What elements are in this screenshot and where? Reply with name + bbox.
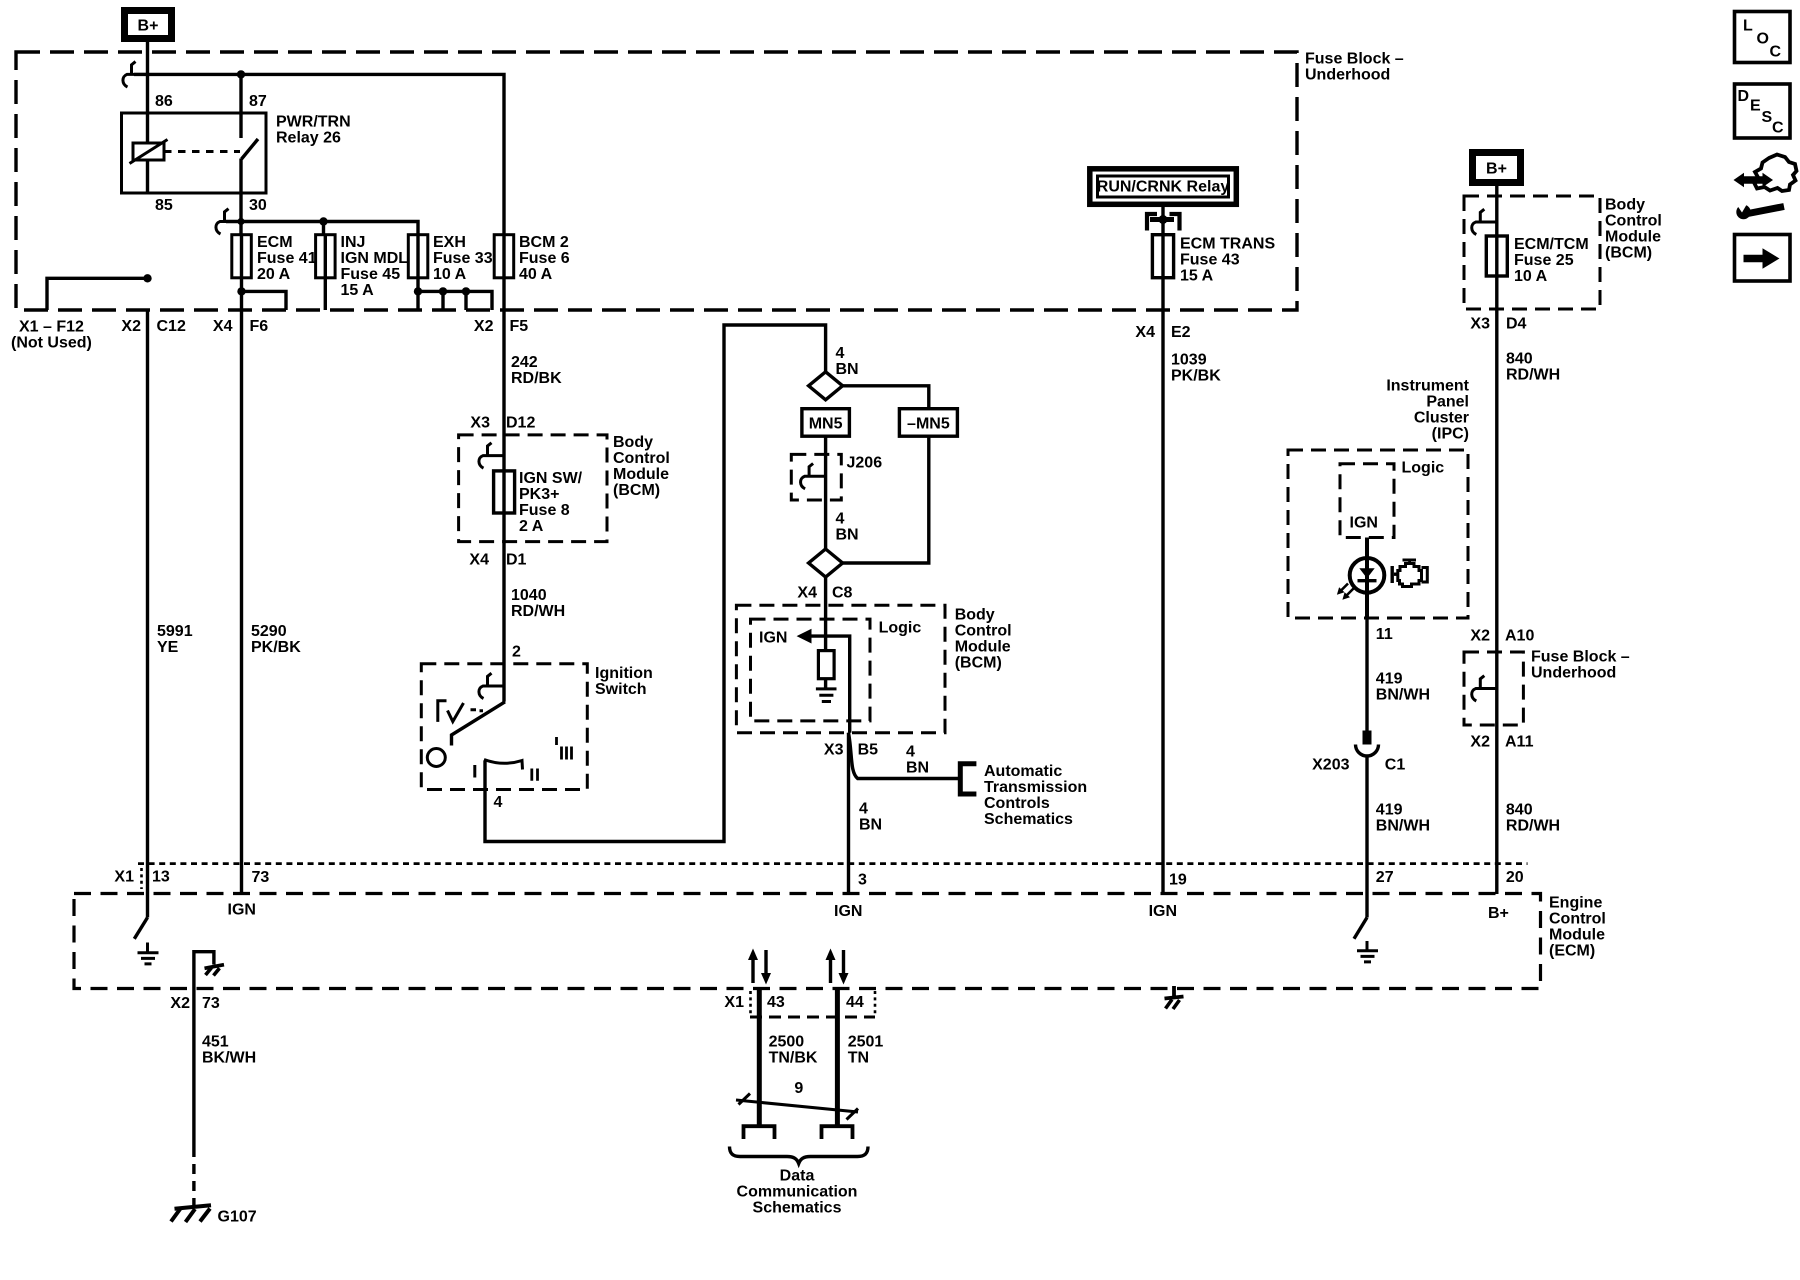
pin label X2 A11 <box>1470 734 1533 751</box>
svg-text:Controls: Controls <box>984 795 1050 812</box>
pin label X2 C12 <box>121 318 186 335</box>
svg-text:L: L <box>1743 18 1753 35</box>
BCM logic outer box <box>736 605 945 732</box>
BCM ign-sw-fuse box <box>459 435 607 542</box>
svg-text:Control: Control <box>955 623 1012 640</box>
svg-text:(Not Used): (Not Used) <box>11 335 92 352</box>
svg-text:RD/BK: RD/BK <box>511 370 562 387</box>
svg-text:40 A: 40 A <box>519 266 553 283</box>
wire relay pin 87 drop <box>239 74 242 138</box>
svg-text:4: 4 <box>906 744 915 761</box>
relay name label <box>276 114 351 147</box>
svg-text:4: 4 <box>494 794 503 811</box>
pin label X3 B5 <box>824 742 878 759</box>
svg-text:840: 840 <box>1506 802 1533 819</box>
svg-text:D1: D1 <box>506 552 527 569</box>
svg-text:Schematics: Schematics <box>753 1200 842 1217</box>
svg-text:(BCM): (BCM) <box>613 482 660 499</box>
label 4 BN (branch) <box>906 744 929 777</box>
svg-text:Fuse 45: Fuse 45 <box>341 266 401 283</box>
icon connector view (arrow blob wrench) <box>1734 155 1797 220</box>
inline connector X203 C1 <box>1356 731 1379 757</box>
svg-text:5290: 5290 <box>251 623 287 640</box>
svg-text:Fuse 25: Fuse 25 <box>1514 252 1574 269</box>
svg-text:B+: B+ <box>138 18 159 35</box>
svg-text:X4: X4 <box>1135 324 1155 341</box>
svg-text:IGN: IGN <box>834 903 862 920</box>
wire fuse45 output <box>324 278 327 310</box>
dashed lead to G107 <box>192 1147 195 1205</box>
svg-text:87: 87 <box>249 93 267 110</box>
svg-text:86: 86 <box>155 93 173 110</box>
node -MN5 <box>899 409 957 437</box>
power symbol B+ (top left) <box>125 11 172 39</box>
svg-text:Switch: Switch <box>595 681 647 698</box>
serial data arrows pin 44 <box>826 949 849 985</box>
svg-text:X2: X2 <box>1470 628 1490 645</box>
splice diamond S2 <box>809 549 843 577</box>
pin label X2 A10 <box>1470 628 1534 645</box>
svg-text:Fuse Block –: Fuse Block – <box>1305 51 1404 68</box>
switch blade at ECM pin 13 <box>134 918 147 939</box>
ignition switch box <box>421 664 587 790</box>
node MN5 <box>802 409 850 437</box>
svg-text:G107: G107 <box>218 1209 257 1226</box>
junction fuse41 stub <box>237 287 245 295</box>
pin label X4 D1 <box>469 552 526 569</box>
svg-text:Module: Module <box>1605 229 1661 246</box>
svg-text:PK/BK: PK/BK <box>1171 368 1221 385</box>
svg-text:Logic: Logic <box>879 620 922 637</box>
svg-text:27: 27 <box>1376 869 1394 886</box>
label 4 BN (mid) <box>836 511 859 544</box>
label 242 RD/BK <box>511 354 562 387</box>
svg-text:10 A: 10 A <box>1514 268 1548 285</box>
svg-text:Relay 26: Relay 26 <box>276 130 341 147</box>
pin label X2 73 <box>170 995 219 1012</box>
wire 5290 PK/BK (fuse41 to ECM 73) <box>240 310 243 892</box>
label Body Control Module (BCM) right <box>1605 197 1662 262</box>
svg-text:C8: C8 <box>832 585 853 602</box>
svg-text:Control: Control <box>1549 911 1606 928</box>
BCM logic inner box <box>751 619 871 721</box>
svg-text:20: 20 <box>1506 869 1524 886</box>
position mark II <box>532 769 538 781</box>
svg-text:D12: D12 <box>506 415 535 432</box>
wire relay to fuse 43 <box>1161 207 1164 235</box>
svg-text:C: C <box>1772 120 1784 137</box>
ignition switch label <box>595 665 653 698</box>
wire 2500 TN/BK <box>757 989 762 1127</box>
svg-text:MN5: MN5 <box>809 416 843 433</box>
svg-text:Module: Module <box>613 466 669 483</box>
pin label X4 E2 <box>1135 324 1190 341</box>
label 5991 YE <box>157 623 193 656</box>
svg-text:X2: X2 <box>474 318 494 335</box>
fuse F43 ECM TRANS Fuse 43 15 A <box>1152 235 1275 285</box>
svg-text:(BCM): (BCM) <box>1605 245 1652 262</box>
svg-text:–MN5: –MN5 <box>907 416 950 433</box>
wire fuse 45 feed <box>322 222 325 235</box>
junction at relay 87 feed <box>237 70 245 78</box>
svg-text:5991: 5991 <box>157 623 193 640</box>
svg-text:RD/WH: RD/WH <box>1506 818 1560 835</box>
svg-text:451: 451 <box>202 1034 229 1051</box>
junction at pin30 tee <box>237 218 244 225</box>
svg-text:B+: B+ <box>1486 161 1507 178</box>
wire 2501 TN <box>835 989 840 1127</box>
svg-text:Body: Body <box>955 607 995 624</box>
svg-text:X3: X3 <box>824 742 844 759</box>
label 5290 PK/BK <box>251 623 301 656</box>
svg-text:73: 73 <box>252 869 270 886</box>
ground at ECM pin 13 <box>138 943 159 964</box>
svg-text:IGN MDL: IGN MDL <box>341 250 409 267</box>
fuse F45 INJ IGN MDL Fuse 45 15 A <box>316 234 409 299</box>
wire bus to relay 87 and BCM2 fuse <box>134 74 504 234</box>
svg-text:15 A: 15 A <box>1180 268 1214 285</box>
svg-text:TN/BK: TN/BK <box>769 1050 818 1067</box>
ECM connector dotted line <box>138 862 1528 865</box>
wire 242 RD/BK fuse6 to BCM <box>502 278 505 471</box>
wire 840 RD/WH upper <box>1495 276 1498 652</box>
relay contact blade <box>242 139 259 159</box>
svg-text:ECM: ECM <box>257 234 293 251</box>
connector hook in right BCM <box>1472 209 1497 234</box>
wire MN5 down through J206 <box>824 436 827 549</box>
icon forward arrow box <box>1735 235 1791 282</box>
wire B+ right down <box>1495 182 1498 236</box>
svg-text:11: 11 <box>1376 626 1393 643</box>
svg-text:A10: A10 <box>1505 628 1534 645</box>
pin label X3 D4 <box>1470 316 1526 333</box>
ignition switch wiper <box>452 702 506 746</box>
svg-text:Instrument: Instrument <box>1386 378 1469 395</box>
connector hook in ignition switch <box>479 673 504 698</box>
wire diamond to BCM C8 <box>824 577 827 651</box>
svg-text:Control: Control <box>1605 213 1662 230</box>
svg-text:E2: E2 <box>1171 324 1191 341</box>
svg-text:D4: D4 <box>1506 316 1527 333</box>
svg-text:D: D <box>1738 88 1750 105</box>
svg-text:BCM 2: BCM 2 <box>519 234 569 251</box>
label 2501 TN <box>848 1034 884 1067</box>
svg-text:BN: BN <box>836 527 859 544</box>
svg-text:2501: 2501 <box>848 1034 884 1051</box>
connector hook at pin 30 bus <box>216 209 241 234</box>
wire 419 BN/WH upper <box>1365 618 1368 731</box>
svg-text:E: E <box>1750 98 1761 115</box>
connector J206 box <box>791 454 841 500</box>
svg-text:73: 73 <box>202 995 220 1012</box>
svg-text:Fuse 8: Fuse 8 <box>519 502 570 519</box>
label X1-F12 Not Used <box>11 319 92 352</box>
fuse F33 EXH Fuse 33 10 A <box>408 234 492 283</box>
connector hook in small fuse block <box>1472 676 1497 701</box>
wire 4 BN to ECM pin 3 <box>847 733 850 894</box>
svg-text:O: O <box>1757 31 1769 48</box>
svg-text:Schematics: Schematics <box>984 811 1073 828</box>
svg-text:BN: BN <box>836 361 859 378</box>
svg-text:9: 9 <box>794 1080 803 1097</box>
svg-text:Engine: Engine <box>1549 895 1602 912</box>
svg-text:Control: Control <box>613 450 670 467</box>
svg-text:Data: Data <box>780 1168 815 1185</box>
svg-text:ECM TRANS: ECM TRANS <box>1180 236 1275 253</box>
svg-text:S: S <box>1762 109 1773 126</box>
svg-text:BN: BN <box>859 817 882 834</box>
wire fuse33 output with taps <box>418 278 492 310</box>
svg-text:Transmission: Transmission <box>984 779 1087 796</box>
svg-text:X2: X2 <box>121 318 141 335</box>
svg-text:B+: B+ <box>1488 905 1509 922</box>
svg-text:43: 43 <box>767 994 785 1011</box>
svg-text:RD/WH: RD/WH <box>1506 367 1560 384</box>
svg-text:242: 242 <box>511 354 538 371</box>
svg-text:Cluster: Cluster <box>1414 410 1469 427</box>
svg-text:B5: B5 <box>858 742 879 759</box>
wire B+ feed down to relay coil <box>146 42 149 193</box>
svg-text:PWR/TRN: PWR/TRN <box>276 114 351 131</box>
wire resistor to ground <box>824 679 827 689</box>
power symbol B+ (right) <box>1473 153 1521 183</box>
BCM box label <box>613 434 670 499</box>
junction at 85 wire <box>143 274 151 282</box>
svg-text:20 A: 20 A <box>257 266 291 283</box>
wire 419 BN/WH lower to ECM 27 <box>1365 757 1368 918</box>
svg-text:F5: F5 <box>510 318 529 335</box>
svg-text:Fuse 33: Fuse 33 <box>433 250 493 267</box>
pin label X3 D12 <box>470 415 535 432</box>
svg-text:EXH: EXH <box>433 234 466 251</box>
svg-text:F6: F6 <box>250 318 269 335</box>
splice diamond S1 <box>809 372 843 400</box>
svg-text:2500: 2500 <box>769 1034 805 1051</box>
wire 5991 YE (85 to ECM 13) <box>146 310 149 918</box>
svg-text:Panel: Panel <box>1426 394 1469 411</box>
off-page bracket AT <box>960 764 976 794</box>
svg-text:Logic: Logic <box>1402 460 1445 477</box>
svg-text:4: 4 <box>859 801 868 818</box>
svg-text:RUN/CRNK Relay: RUN/CRNK Relay <box>1097 179 1230 196</box>
pin label X203 C1 <box>1312 757 1405 774</box>
ground in BCM <box>816 689 837 702</box>
svg-text:Module: Module <box>955 639 1011 656</box>
fuse F8 IGN SW/PK3+ Fuse 8 2 A <box>494 470 583 535</box>
label Instrument Panel Cluster (IPC) <box>1386 378 1469 443</box>
svg-text:J206: J206 <box>847 455 883 472</box>
svg-text:TN: TN <box>848 1050 869 1067</box>
lock position glyph <box>438 701 483 722</box>
svg-text:IGN: IGN <box>1149 903 1177 920</box>
svg-text:PK/BK: PK/BK <box>251 639 301 656</box>
svg-text:Fuse 41: Fuse 41 <box>257 250 317 267</box>
junction at fuse 45 feed <box>319 217 327 225</box>
svg-text:Automatic: Automatic <box>984 763 1062 780</box>
wire through small fuse block <box>1495 652 1498 894</box>
svg-text:X4: X4 <box>469 552 489 569</box>
svg-text:15 A: 15 A <box>341 282 375 299</box>
svg-text:13: 13 <box>152 869 170 886</box>
svg-text:840: 840 <box>1506 351 1533 368</box>
svg-text:Underhood: Underhood <box>1305 67 1390 84</box>
relay terminal clips <box>1147 214 1180 231</box>
relay coil <box>130 140 168 164</box>
switch blade at ECM pin 27 <box>1354 918 1367 939</box>
label 1039 PK/BK <box>1171 352 1221 385</box>
ground at ECM pin 27 <box>1357 941 1378 962</box>
svg-text:C1: C1 <box>1385 757 1406 774</box>
label 4 BN (lower) <box>859 801 882 834</box>
label Data Communication Schematics <box>737 1168 858 1217</box>
junctions fuse33 taps <box>414 287 470 295</box>
svg-text:IGN: IGN <box>759 630 787 647</box>
svg-text:A11: A11 <box>1505 734 1534 751</box>
serial data arrows pin 43 <box>748 949 771 985</box>
svg-text:INJ: INJ <box>341 234 366 251</box>
svg-text:IGN: IGN <box>1350 515 1378 532</box>
twisted pair marker <box>736 1094 858 1120</box>
brace data communication <box>730 1147 869 1164</box>
fuse F25 ECM/TCM Fuse 25 10 A <box>1486 236 1588 285</box>
svg-text:Fuse 6: Fuse 6 <box>519 250 570 267</box>
svg-text:1039: 1039 <box>1171 352 1207 369</box>
svg-text:BN/WH: BN/WH <box>1376 818 1430 835</box>
label 4 BN (upper) <box>836 345 859 378</box>
svg-text:X203: X203 <box>1312 757 1349 774</box>
svg-text:Underhood: Underhood <box>1531 665 1616 682</box>
relay pin labels 86 87 85 30 <box>155 93 267 214</box>
svg-text:30: 30 <box>249 197 267 214</box>
BCM right box <box>1464 196 1600 309</box>
svg-text:3: 3 <box>858 872 867 889</box>
connector hook at B+ bus <box>123 62 148 87</box>
svg-text:X1: X1 <box>114 869 134 886</box>
svg-text:10 A: 10 A <box>433 266 467 283</box>
svg-text:(IPC): (IPC) <box>1432 426 1469 443</box>
svg-text:Ignition: Ignition <box>595 665 653 682</box>
svg-text:BN: BN <box>906 760 929 777</box>
svg-text:44: 44 <box>846 994 864 1011</box>
position mark I <box>473 765 476 778</box>
label Fuse Block - Underhood right <box>1531 649 1630 682</box>
relay RUN/CRNK Relay label box <box>1090 169 1237 205</box>
label 419 BN/WH upper <box>1376 671 1430 704</box>
svg-text:X1 – F12: X1 – F12 <box>19 319 84 336</box>
wire 1040 RD/WH fuse8 to ignition switch <box>502 513 505 702</box>
svg-text:ECM/TCM: ECM/TCM <box>1514 236 1589 253</box>
resistor in BCM <box>818 651 834 679</box>
wire fuse41 output with stub <box>242 278 287 310</box>
wire terminal 4 to MN5 diamond <box>485 325 826 842</box>
fuse F6 BCM 2 Fuse 6 40 A <box>494 234 570 283</box>
pin label X1 13 <box>114 868 169 889</box>
label 1040 RD/WH <box>511 587 565 620</box>
wire fuse feed bus <box>226 222 418 235</box>
svg-text:Fuse 43: Fuse 43 <box>1180 252 1240 269</box>
pin label X4 F6 <box>213 318 268 335</box>
svg-text:X1: X1 <box>724 994 744 1011</box>
svg-text:2 A: 2 A <box>519 518 544 535</box>
Fuse Block - Underhood box <box>16 52 1297 310</box>
relay K PWR/TRN Relay 26 box <box>122 113 267 193</box>
wire B5 branch to AT controls <box>849 733 961 779</box>
label 419 BN/WH lower <box>1376 802 1430 835</box>
svg-text:IGN: IGN <box>228 902 256 919</box>
svg-text:85: 85 <box>155 197 173 214</box>
svg-text:BK/WH: BK/WH <box>202 1050 256 1067</box>
ground G107 <box>171 1205 257 1225</box>
indicator LED telltale <box>1337 538 1384 619</box>
ignition switch rotor circle <box>427 749 445 767</box>
connector hook in BCM box <box>479 443 504 468</box>
svg-text:RD/WH: RD/WH <box>511 603 565 620</box>
svg-text:19: 19 <box>1169 872 1187 889</box>
svg-text:PK3+: PK3+ <box>519 486 559 503</box>
wire diamond to -MN5 <box>843 386 929 408</box>
svg-text:4: 4 <box>836 511 845 528</box>
ECM case ground lead <box>194 952 214 989</box>
wire IGN to indicator <box>1365 538 1368 619</box>
svg-text:1040: 1040 <box>511 587 547 604</box>
wire terminator 2500 <box>744 1126 775 1139</box>
ECM case ground at bottom border <box>1165 986 1184 1009</box>
engine icon <box>1391 559 1428 587</box>
fuse block underhood small box <box>1464 652 1523 725</box>
svg-text:Communication: Communication <box>737 1184 858 1201</box>
svg-text:X3: X3 <box>1470 316 1490 333</box>
position mark III <box>557 737 572 760</box>
svg-text:YE: YE <box>157 639 179 656</box>
svg-text:Module: Module <box>1549 927 1605 944</box>
wire 451 BK/WH <box>192 989 195 1148</box>
svg-text:X2: X2 <box>1470 734 1490 751</box>
contact arc at terminal 4 <box>484 760 523 770</box>
connector hook in J206 <box>801 464 826 489</box>
label Body Control Module (BCM) middle <box>955 607 1012 672</box>
svg-text:(ECM): (ECM) <box>1549 943 1595 960</box>
fuse F41 ECM Fuse 41 20 A <box>232 234 317 283</box>
svg-text:X4: X4 <box>797 585 817 602</box>
svg-text:419: 419 <box>1376 802 1403 819</box>
svg-text:C: C <box>1770 44 1782 61</box>
label Automatic Transmission Controls Schematics <box>984 763 1087 828</box>
pin label X2 F5 <box>474 318 528 335</box>
svg-text:Body: Body <box>1605 197 1645 214</box>
chassis ground in ECM <box>205 965 225 976</box>
wire relay pin 30 to fuse bus <box>239 159 242 235</box>
wire -MN5 down <box>843 436 929 563</box>
svg-text:Fuse Block –: Fuse Block – <box>1531 649 1630 666</box>
wire 85 branch to X1-F12 <box>47 278 148 310</box>
Fuse Block - Underhood label <box>1305 51 1404 84</box>
pin label X4 C8 <box>797 585 852 602</box>
relay coil-contact dashed link <box>164 150 240 153</box>
svg-text:X4: X4 <box>213 318 233 335</box>
svg-text:C12: C12 <box>157 318 186 335</box>
wire terminator 2501 <box>822 1126 853 1139</box>
icon LOC box <box>1735 12 1791 63</box>
svg-text:2: 2 <box>512 644 521 661</box>
label 451 BK/WH <box>202 1034 256 1067</box>
svg-text:4: 4 <box>836 345 845 362</box>
pin label X1 43 44 <box>724 991 875 1017</box>
IGN arrow <box>797 629 850 733</box>
icon DESC box <box>1735 84 1791 138</box>
IPC box <box>1288 450 1468 618</box>
label 840 RD/WH upper <box>1506 351 1560 384</box>
label Engine Control Module (ECM) <box>1549 895 1606 960</box>
